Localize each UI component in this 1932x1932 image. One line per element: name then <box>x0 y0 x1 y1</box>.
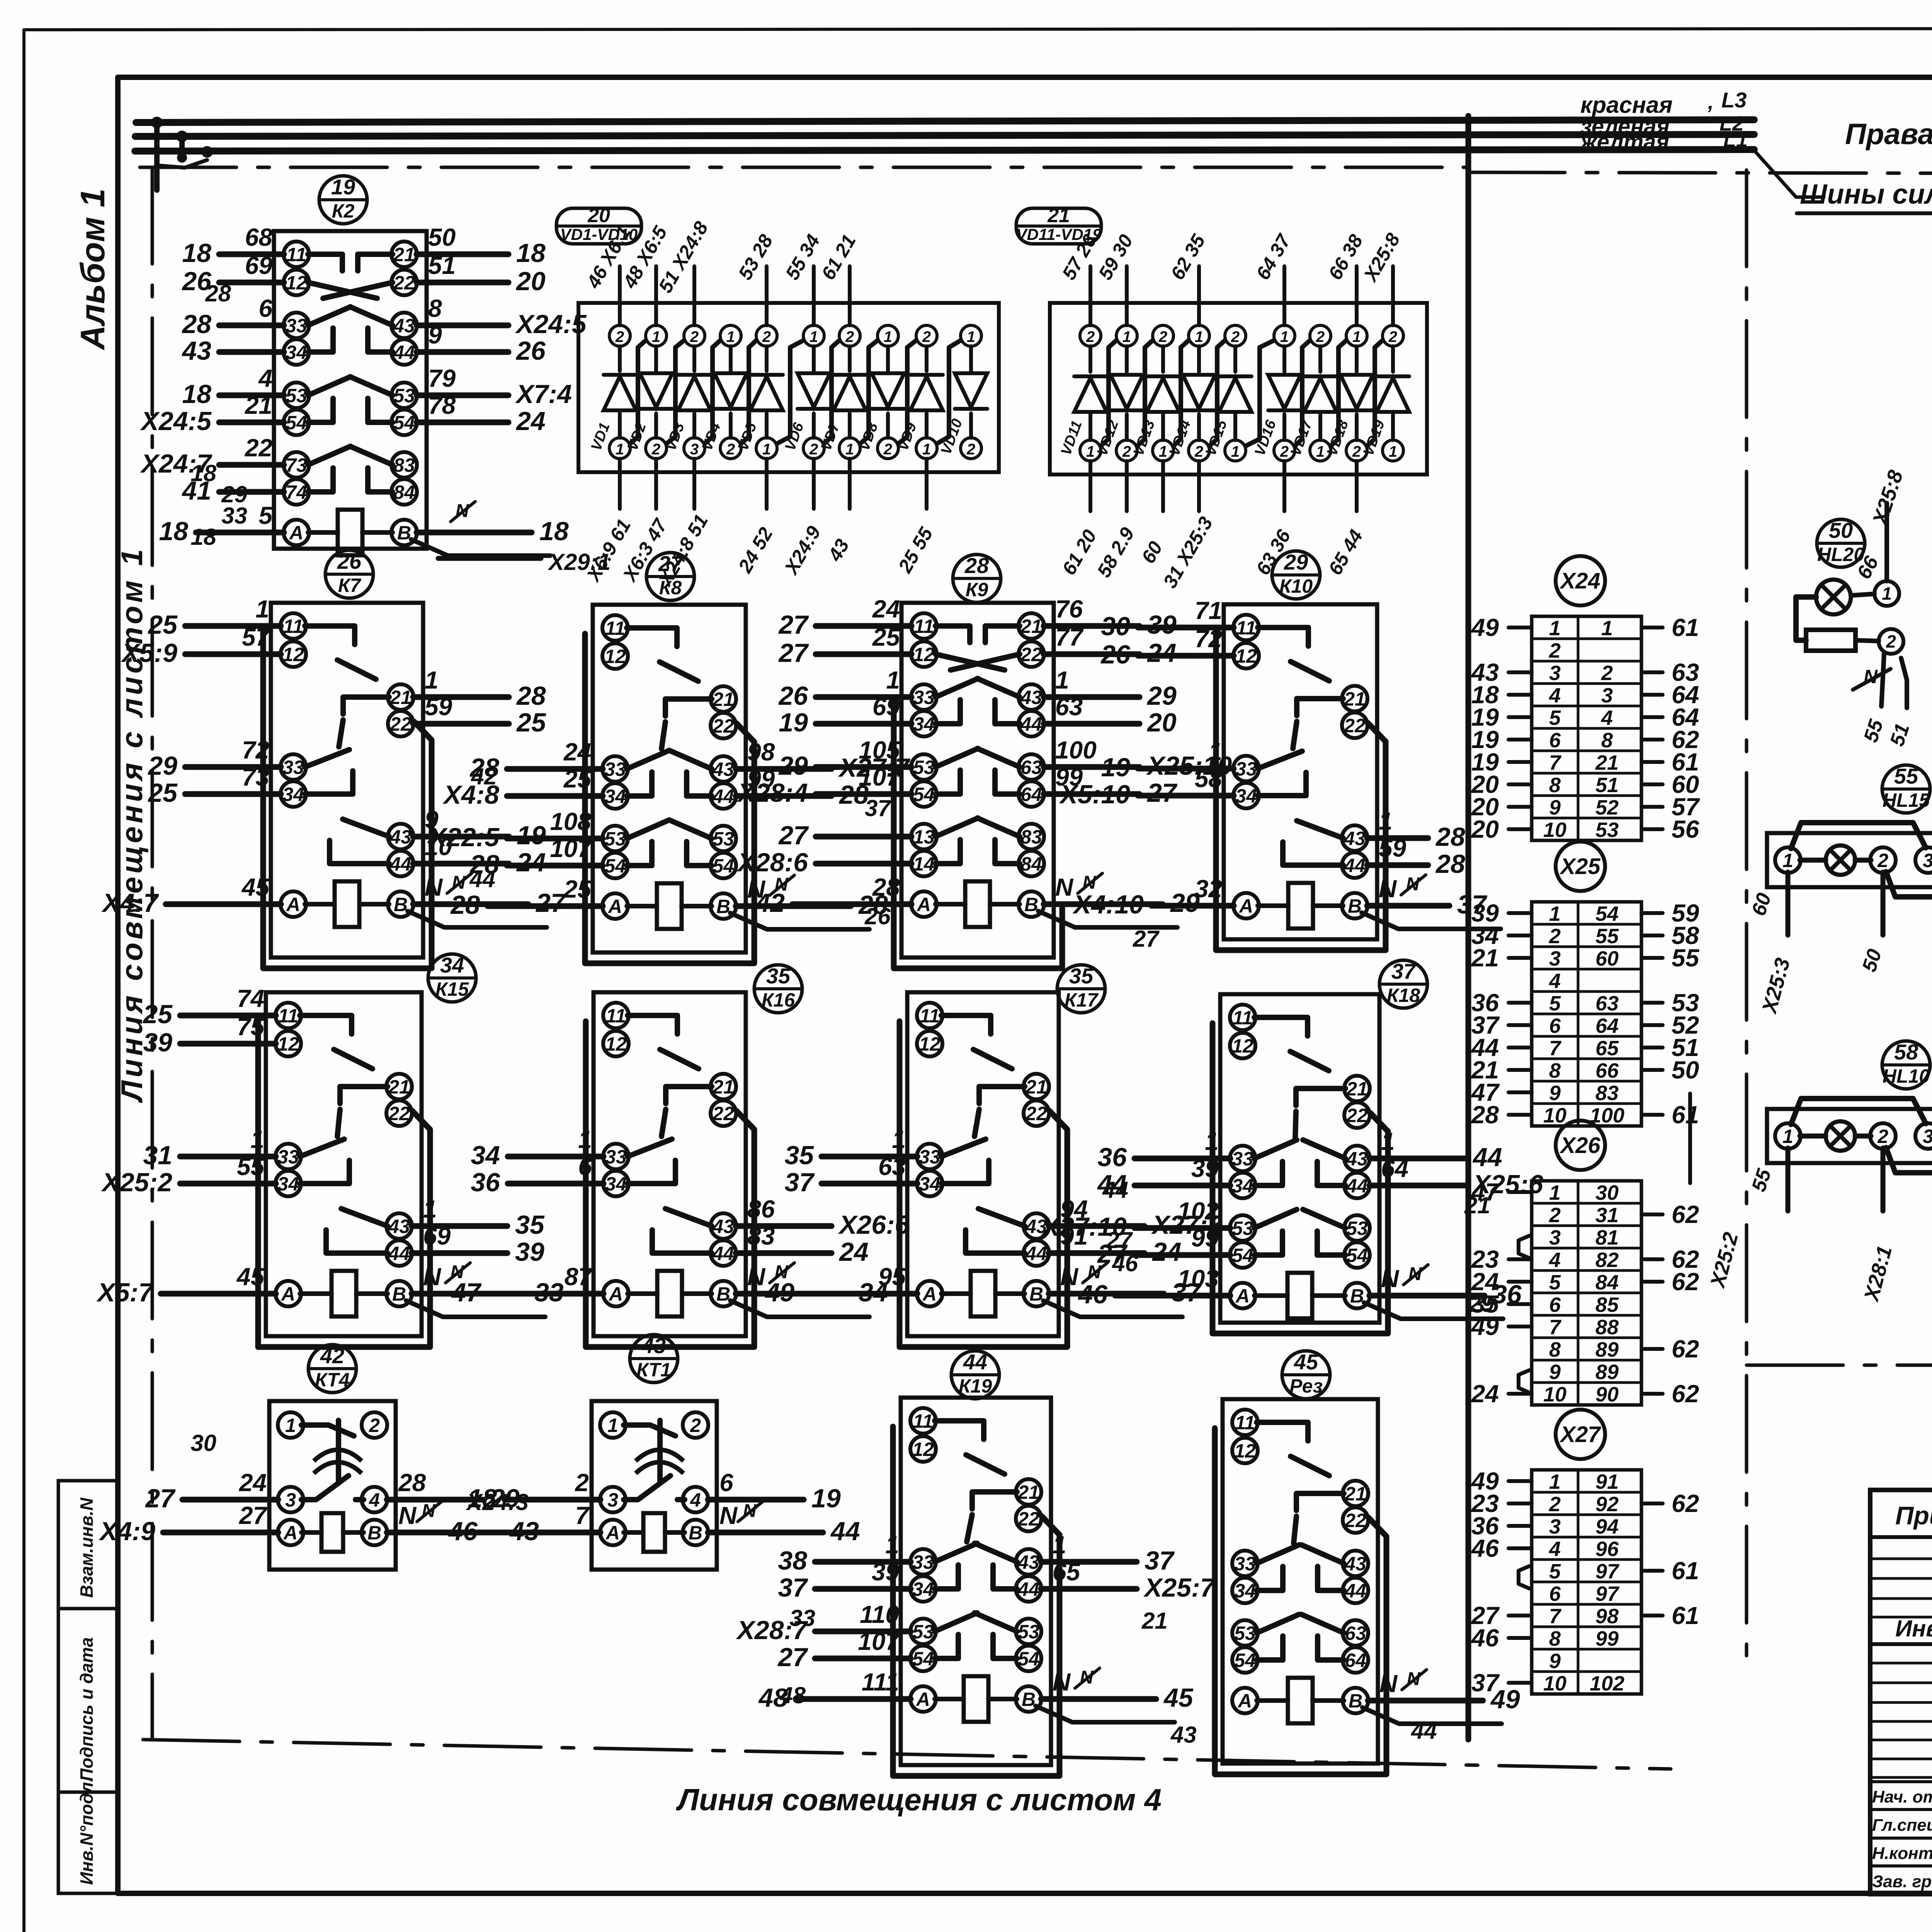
svg-text:39: 39 <box>143 1028 172 1057</box>
svg-text:22: 22 <box>1017 1508 1039 1530</box>
svg-text:94: 94 <box>1595 1515 1619 1538</box>
svg-text:83: 83 <box>1595 1082 1619 1105</box>
svg-text:53: 53 <box>913 757 935 778</box>
svg-text:35: 35 <box>766 964 791 988</box>
svg-text:Правая дверь шкафа (вид: Правая дверь шкафа (вид со стороны монта… <box>1845 118 1932 151</box>
svg-text:7: 7 <box>1549 1605 1562 1628</box>
svg-text:11: 11 <box>286 244 306 265</box>
svg-text:25: 25 <box>147 610 178 639</box>
svg-text:44: 44 <box>393 342 415 363</box>
svg-text:33: 33 <box>1232 1148 1253 1170</box>
svg-text:4: 4 <box>258 364 272 392</box>
svg-text:18: 18 <box>182 379 211 409</box>
svg-text:50: 50 <box>1672 1056 1699 1084</box>
svg-text:26: 26 <box>515 336 546 366</box>
svg-text:6: 6 <box>1549 1014 1561 1037</box>
svg-text:44: 44 <box>1020 713 1042 735</box>
svg-text:33: 33 <box>221 503 247 529</box>
svg-text:21: 21 <box>393 244 415 265</box>
svg-text:1: 1 <box>1389 443 1397 460</box>
svg-text:44: 44 <box>388 1243 410 1264</box>
svg-text:3: 3 <box>1549 947 1561 970</box>
svg-text:A: A <box>607 896 622 917</box>
svg-text:76: 76 <box>1055 595 1083 623</box>
svg-text:18: 18 <box>182 238 211 268</box>
svg-text:2: 2 <box>1280 443 1289 460</box>
svg-text:52: 52 <box>1595 796 1619 819</box>
svg-text:54: 54 <box>1232 1245 1253 1266</box>
svg-text:X5:10: X5:10 <box>1059 780 1131 809</box>
svg-text:19: 19 <box>1101 753 1130 782</box>
svg-text:1: 1 <box>1882 583 1892 604</box>
svg-text:36: 36 <box>471 1168 500 1197</box>
svg-text:11: 11 <box>606 1005 626 1027</box>
svg-text:59: 59 <box>425 693 452 721</box>
svg-text:6: 6 <box>259 294 272 322</box>
svg-text:43: 43 <box>389 826 412 848</box>
svg-text:43: 43 <box>1346 1148 1368 1170</box>
svg-text:11: 11 <box>920 1005 940 1027</box>
svg-text:A: A <box>916 894 931 915</box>
svg-text:X27: X27 <box>1559 1422 1601 1447</box>
svg-text:54: 54 <box>713 855 734 877</box>
svg-text:46: 46 <box>1471 1534 1499 1562</box>
svg-text:2: 2 <box>762 328 771 345</box>
svg-text:К10: К10 <box>1279 575 1313 597</box>
svg-text:53: 53 <box>604 828 626 850</box>
svg-text:21: 21 <box>1141 1608 1168 1634</box>
svg-text:1: 1 <box>1316 443 1325 460</box>
svg-text:1: 1 <box>255 595 269 623</box>
svg-text:10: 10 <box>1543 1672 1566 1695</box>
svg-text:Рез: Рез <box>1289 1375 1323 1397</box>
svg-text:48: 48 <box>779 1682 806 1708</box>
svg-text:29: 29 <box>1146 681 1177 711</box>
svg-text:47: 47 <box>451 1278 482 1307</box>
svg-text:4: 4 <box>690 1489 701 1511</box>
svg-text:62: 62 <box>1672 1201 1699 1228</box>
svg-text:2: 2 <box>1352 443 1361 460</box>
svg-text:37: 37 <box>865 795 891 821</box>
svg-text:1: 1 <box>285 1415 296 1436</box>
svg-text:8: 8 <box>428 294 442 322</box>
svg-text:33: 33 <box>1234 1553 1256 1575</box>
svg-text:1: 1 <box>425 666 439 694</box>
svg-text:2: 2 <box>966 441 975 458</box>
svg-text:87: 87 <box>565 1263 594 1291</box>
svg-text:1: 1 <box>967 328 975 345</box>
svg-text:N: N <box>1055 873 1074 901</box>
svg-text:11: 11 <box>605 617 625 639</box>
svg-text:2: 2 <box>1194 443 1203 460</box>
svg-text:2: 2 <box>726 441 735 458</box>
svg-text:6: 6 <box>1549 1293 1561 1316</box>
svg-text:44: 44 <box>1344 1580 1366 1602</box>
svg-text:X22:5: X22:5 <box>428 823 500 852</box>
svg-text:КТ1: КТ1 <box>636 1359 671 1381</box>
svg-text:X5:7: X5:7 <box>96 1278 154 1307</box>
svg-text:33: 33 <box>282 757 304 778</box>
svg-text:22: 22 <box>712 1103 734 1124</box>
svg-text:1: 1 <box>886 666 900 694</box>
svg-text:26: 26 <box>337 549 362 573</box>
svg-text:97: 97 <box>1595 1582 1620 1605</box>
svg-text:34: 34 <box>440 953 464 977</box>
svg-text:1: 1 <box>1086 443 1095 460</box>
svg-text:83: 83 <box>393 454 415 476</box>
svg-text:11: 11 <box>278 1005 298 1027</box>
svg-text:68: 68 <box>245 223 273 251</box>
svg-text:21: 21 <box>389 687 412 708</box>
svg-text:33: 33 <box>789 1605 815 1631</box>
svg-text:19: 19 <box>517 821 546 850</box>
svg-text:1: 1 <box>607 1415 618 1436</box>
svg-text:19: 19 <box>779 708 808 737</box>
svg-text:20: 20 <box>515 267 546 296</box>
svg-text:62: 62 <box>1672 1335 1699 1363</box>
svg-text:X25: X25 <box>1559 854 1600 879</box>
svg-text:28: 28 <box>205 281 231 306</box>
svg-text:63: 63 <box>1020 757 1042 778</box>
svg-text:20: 20 <box>587 204 610 227</box>
svg-text:43: 43 <box>1344 1553 1366 1575</box>
svg-text:54: 54 <box>604 855 626 877</box>
svg-text:3: 3 <box>285 1489 296 1511</box>
svg-text:Линия совмещения с лист: Линия совмещения с листом 4 <box>676 1782 1162 1817</box>
svg-text:2: 2 <box>1601 662 1613 685</box>
svg-text:21: 21 <box>1047 204 1070 227</box>
svg-text:1: 1 <box>1782 1126 1793 1147</box>
svg-text:B: B <box>689 1522 702 1544</box>
svg-text:43: 43 <box>1344 828 1366 849</box>
svg-text:24: 24 <box>515 406 546 436</box>
svg-text:44: 44 <box>389 853 412 875</box>
svg-text:60: 60 <box>1595 947 1619 970</box>
svg-text:81: 81 <box>1595 1226 1619 1249</box>
svg-text:44: 44 <box>712 786 734 807</box>
svg-text:21: 21 <box>388 1076 410 1098</box>
svg-text:25: 25 <box>516 708 546 737</box>
svg-text:1: 1 <box>762 441 771 458</box>
svg-text:27: 27 <box>535 888 566 918</box>
svg-text:57: 57 <box>242 623 271 651</box>
svg-text:33: 33 <box>919 1146 940 1168</box>
svg-text:A: A <box>922 1283 937 1305</box>
svg-text:34: 34 <box>912 1578 934 1600</box>
svg-text:34: 34 <box>605 1173 627 1195</box>
svg-text:65: 65 <box>1595 1037 1619 1060</box>
svg-text:1: 1 <box>1549 902 1561 925</box>
svg-text:2: 2 <box>1549 1204 1561 1227</box>
svg-text:22: 22 <box>389 713 412 735</box>
svg-text:84: 84 <box>1595 1271 1619 1294</box>
svg-text:91: 91 <box>1595 1470 1619 1493</box>
svg-text:8: 8 <box>1601 729 1613 752</box>
svg-text:82: 82 <box>1595 1248 1619 1272</box>
svg-text:33: 33 <box>286 315 307 337</box>
svg-text:51: 51 <box>428 252 456 279</box>
svg-text:N: N <box>1864 666 1878 687</box>
svg-text:К2: К2 <box>332 200 355 222</box>
svg-text:27: 27 <box>778 821 809 850</box>
svg-text:30: 30 <box>1595 1181 1619 1204</box>
svg-text:1: 1 <box>1601 617 1613 640</box>
svg-text:28: 28 <box>1435 822 1465 852</box>
svg-text:12: 12 <box>604 646 626 667</box>
svg-text:9: 9 <box>1549 1361 1561 1384</box>
svg-text:53: 53 <box>286 385 307 406</box>
svg-text:22: 22 <box>393 272 415 294</box>
svg-text:62: 62 <box>1672 1490 1699 1517</box>
svg-text:85: 85 <box>1595 1293 1619 1316</box>
svg-text:43: 43 <box>1017 1551 1039 1573</box>
svg-text:21: 21 <box>712 1076 734 1098</box>
svg-text:54: 54 <box>912 1648 934 1670</box>
svg-text:1: 1 <box>1195 328 1203 345</box>
svg-text:1: 1 <box>1352 328 1361 345</box>
svg-text:X24:5: X24:5 <box>140 406 212 436</box>
svg-text:28: 28 <box>450 890 480 920</box>
svg-text:34: 34 <box>604 786 626 807</box>
svg-text:50: 50 <box>428 223 456 251</box>
svg-text:2: 2 <box>1086 328 1095 345</box>
svg-text:A: A <box>1237 1690 1252 1712</box>
svg-text:8: 8 <box>1549 774 1561 797</box>
svg-text:54: 54 <box>393 412 415 434</box>
svg-text:54: 54 <box>1234 1650 1256 1671</box>
svg-text:33: 33 <box>913 687 935 708</box>
svg-text:X4:10: X4:10 <box>1072 890 1144 919</box>
svg-text:7: 7 <box>1549 1037 1562 1060</box>
svg-text:45: 45 <box>1163 1683 1194 1713</box>
svg-text:12: 12 <box>919 1033 940 1055</box>
svg-text:43: 43 <box>712 759 734 780</box>
svg-text:43: 43 <box>641 1333 666 1358</box>
svg-text:2: 2 <box>1549 925 1561 948</box>
svg-text:18: 18 <box>539 517 569 546</box>
svg-text:20: 20 <box>1146 708 1177 737</box>
svg-text:14: 14 <box>913 853 935 875</box>
svg-text:2: 2 <box>690 1415 701 1436</box>
svg-text:58: 58 <box>1894 1040 1918 1064</box>
svg-text:33: 33 <box>605 1146 627 1168</box>
svg-text:1: 1 <box>922 441 931 458</box>
svg-text:25: 25 <box>142 1000 173 1029</box>
svg-text:желтая: желтая <box>1579 129 1669 155</box>
svg-text:73: 73 <box>286 454 307 476</box>
svg-text:L1: L1 <box>1723 128 1748 151</box>
svg-text:27: 27 <box>778 610 809 639</box>
svg-text:A: A <box>289 522 303 544</box>
svg-text:27: 27 <box>778 638 809 668</box>
svg-text:34: 34 <box>277 1173 299 1195</box>
svg-text:22: 22 <box>712 715 734 737</box>
svg-text:53: 53 <box>1595 818 1619 842</box>
svg-text:2: 2 <box>575 1469 589 1497</box>
svg-text:53: 53 <box>912 1621 934 1643</box>
svg-text:Инв. N°: Инв. N° <box>1895 1616 1932 1641</box>
svg-text:1: 1 <box>1549 617 1561 640</box>
svg-text:46: 46 <box>1112 1250 1138 1276</box>
svg-text:62: 62 <box>1672 1380 1699 1408</box>
svg-text:12: 12 <box>1232 1035 1253 1057</box>
svg-text:A: A <box>286 894 300 915</box>
svg-text:2: 2 <box>922 328 931 345</box>
svg-text:18: 18 <box>190 524 216 550</box>
svg-text:53: 53 <box>713 828 734 850</box>
svg-text:27: 27 <box>145 1484 176 1513</box>
svg-text:1: 1 <box>1549 1470 1561 1493</box>
svg-text:1: 1 <box>1782 850 1793 871</box>
svg-text:34: 34 <box>1234 1580 1256 1602</box>
svg-text:HL20: HL20 <box>1817 544 1864 565</box>
svg-text:26: 26 <box>1100 640 1131 669</box>
svg-text:97: 97 <box>1595 1560 1620 1583</box>
svg-text:33: 33 <box>604 759 626 780</box>
svg-text:35: 35 <box>1069 964 1094 988</box>
svg-text:1: 1 <box>1122 328 1131 345</box>
svg-text:21: 21 <box>1017 1481 1039 1503</box>
svg-text:A: A <box>283 1522 298 1544</box>
svg-text:43: 43 <box>1170 1722 1197 1748</box>
svg-text:55: 55 <box>1894 764 1918 788</box>
svg-text:3: 3 <box>690 441 699 458</box>
svg-text:54: 54 <box>1018 1648 1039 1670</box>
svg-text:44: 44 <box>830 1517 860 1546</box>
svg-text:1: 1 <box>652 328 660 345</box>
svg-text:HL10: HL10 <box>1883 1065 1930 1087</box>
svg-text:3: 3 <box>1923 850 1932 871</box>
svg-text:25: 25 <box>147 778 178 808</box>
svg-text:Зав. гр.: Зав. гр. <box>1872 1872 1932 1891</box>
svg-text:69: 69 <box>245 252 273 279</box>
svg-text:N: N <box>719 1502 738 1529</box>
svg-text:2: 2 <box>1877 850 1888 871</box>
svg-text:2: 2 <box>809 441 818 458</box>
svg-text:12: 12 <box>277 1033 299 1055</box>
svg-text:7: 7 <box>1549 751 1562 774</box>
svg-text:28: 28 <box>516 681 546 711</box>
svg-text:34: 34 <box>919 1173 940 1195</box>
svg-text:2: 2 <box>1549 639 1561 662</box>
svg-text:2: 2 <box>1231 328 1240 345</box>
svg-text:83: 83 <box>1020 826 1042 848</box>
svg-text:1: 1 <box>845 441 854 458</box>
svg-text:Нач. отд.: Нач. отд. <box>1872 1787 1932 1806</box>
svg-text:44: 44 <box>712 1243 734 1264</box>
svg-text:61: 61 <box>1672 1602 1699 1629</box>
svg-text:24: 24 <box>516 848 546 877</box>
svg-text:63: 63 <box>1055 693 1083 721</box>
svg-text:33: 33 <box>1235 758 1257 780</box>
svg-text:5: 5 <box>1549 1560 1561 1583</box>
svg-text:44: 44 <box>1411 1718 1437 1744</box>
svg-text:4: 4 <box>1549 969 1561 993</box>
svg-text:21: 21 <box>1025 1076 1047 1098</box>
svg-text:37: 37 <box>784 1168 815 1197</box>
svg-text:X24:3: X24:3 <box>466 1489 529 1515</box>
svg-text:71: 71 <box>1195 597 1222 624</box>
svg-text:53: 53 <box>1346 1218 1368 1239</box>
svg-text:54: 54 <box>286 412 307 434</box>
svg-text:55: 55 <box>1672 944 1700 972</box>
svg-text:2: 2 <box>1158 328 1167 345</box>
svg-text:2: 2 <box>1122 443 1131 460</box>
svg-text:A: A <box>605 1522 620 1544</box>
svg-text:,: , <box>1708 90 1714 114</box>
svg-text:64: 64 <box>1020 784 1042 805</box>
svg-text:54: 54 <box>913 784 935 805</box>
svg-text:A: A <box>1235 1285 1250 1307</box>
svg-text:5: 5 <box>1549 992 1561 1015</box>
svg-text:X24:5: X24:5 <box>515 310 587 339</box>
svg-text:34: 34 <box>282 784 304 805</box>
svg-text:84: 84 <box>393 481 415 503</box>
svg-text:96: 96 <box>1595 1537 1619 1561</box>
svg-text:79: 79 <box>428 364 456 392</box>
svg-text:Гл.спец.: Гл.спец. <box>1872 1816 1932 1835</box>
svg-text:36: 36 <box>1097 1143 1127 1172</box>
svg-text:90: 90 <box>1595 1383 1619 1406</box>
svg-text:18: 18 <box>159 517 188 546</box>
svg-text:9: 9 <box>1549 1082 1561 1105</box>
svg-text:КТ4: КТ4 <box>315 1369 350 1391</box>
svg-text:92: 92 <box>1595 1493 1619 1516</box>
svg-text:43: 43 <box>393 315 415 337</box>
svg-text:X7:4: X7:4 <box>515 379 572 409</box>
svg-text:N: N <box>398 1502 417 1529</box>
svg-text:8: 8 <box>1549 1059 1561 1082</box>
svg-text:102: 102 <box>1590 1672 1624 1695</box>
svg-text:21: 21 <box>1344 688 1366 710</box>
svg-text:27: 27 <box>239 1502 268 1529</box>
svg-text:11: 11 <box>913 1410 933 1432</box>
svg-text:12: 12 <box>912 1439 934 1460</box>
svg-text:12: 12 <box>1235 645 1257 667</box>
svg-text:X25:2: X25:2 <box>101 1168 173 1197</box>
svg-text:X26: X26 <box>1559 1133 1600 1158</box>
svg-text:5: 5 <box>1549 1271 1561 1294</box>
svg-text:2: 2 <box>883 441 892 458</box>
svg-text:A: A <box>915 1689 930 1710</box>
svg-text:31: 31 <box>1595 1204 1619 1227</box>
svg-text:84: 84 <box>1020 853 1042 875</box>
svg-text:X4:7: X4:7 <box>101 888 159 918</box>
svg-text:4: 4 <box>1549 1537 1561 1561</box>
svg-text:26: 26 <box>778 681 808 711</box>
svg-text:44: 44 <box>1344 855 1366 876</box>
svg-text:Привязан: Привязан <box>1895 1501 1932 1530</box>
svg-text:43: 43 <box>712 1216 734 1237</box>
svg-text:35: 35 <box>515 1210 545 1240</box>
svg-text:9: 9 <box>428 321 442 349</box>
svg-text:44: 44 <box>469 866 495 892</box>
svg-text:6: 6 <box>719 1469 733 1497</box>
svg-text:1: 1 <box>1055 666 1069 694</box>
svg-text:12: 12 <box>913 644 935 665</box>
svg-text:53: 53 <box>393 385 415 406</box>
svg-text:100: 100 <box>1055 736 1097 764</box>
svg-text:29: 29 <box>778 751 808 781</box>
svg-text:2: 2 <box>1877 1126 1888 1147</box>
svg-text:5: 5 <box>259 502 273 529</box>
svg-text:К16: К16 <box>762 989 796 1011</box>
svg-text:4: 4 <box>1601 706 1613 730</box>
svg-text:37: 37 <box>1391 959 1417 983</box>
svg-text:20: 20 <box>1471 815 1499 843</box>
svg-text:49: 49 <box>1471 1313 1499 1340</box>
svg-text:10: 10 <box>1543 1383 1566 1406</box>
